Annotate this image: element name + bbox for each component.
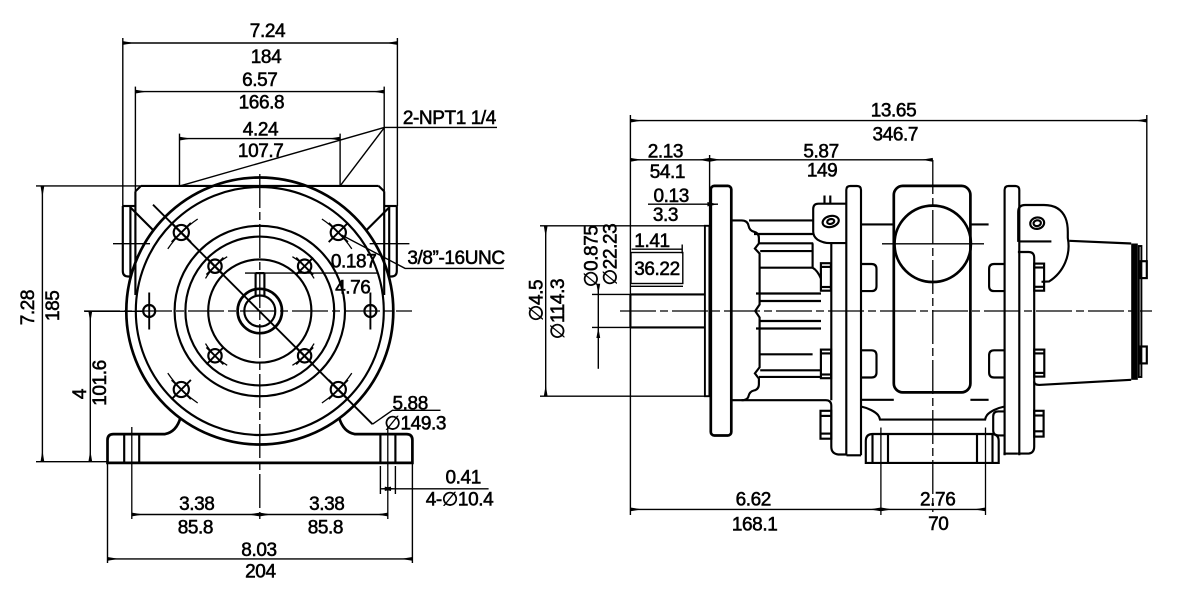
svg-text:∅22.23: ∅22.23 xyxy=(601,224,622,286)
svg-text:346.7: 346.7 xyxy=(873,124,919,145)
svg-text:6.62: 6.62 xyxy=(736,490,771,511)
svg-text:13.65: 13.65 xyxy=(871,100,917,121)
svg-text:184: 184 xyxy=(251,47,282,68)
svg-text:∅4.5: ∅4.5 xyxy=(527,280,548,321)
svg-text:5.88: 5.88 xyxy=(393,393,428,414)
svg-text:36.22: 36.22 xyxy=(634,259,680,280)
svg-text:185: 185 xyxy=(43,291,64,322)
svg-text:168.1: 168.1 xyxy=(732,515,778,536)
svg-text:101.6: 101.6 xyxy=(90,360,111,406)
svg-text:4: 4 xyxy=(70,388,91,399)
svg-text:204: 204 xyxy=(245,562,276,583)
svg-text:1.41: 1.41 xyxy=(634,231,669,252)
svg-text:∅0.875: ∅0.875 xyxy=(582,225,603,287)
svg-text:4.24: 4.24 xyxy=(243,120,279,141)
svg-text:7.24: 7.24 xyxy=(250,21,286,42)
svg-text:3.3: 3.3 xyxy=(653,205,678,226)
svg-text:85.8: 85.8 xyxy=(308,518,343,539)
svg-text:∅114.3: ∅114.3 xyxy=(548,279,569,339)
svg-text:3/8”-16UNC: 3/8”-16UNC xyxy=(407,248,504,269)
svg-text:4-∅10.4: 4-∅10.4 xyxy=(426,490,494,511)
svg-text:85.8: 85.8 xyxy=(178,518,213,539)
svg-text:3.38: 3.38 xyxy=(309,494,344,515)
svg-text:0.187: 0.187 xyxy=(331,252,377,273)
svg-text:2.76: 2.76 xyxy=(920,490,955,511)
svg-text:6.57: 6.57 xyxy=(242,70,277,91)
svg-text:0.41: 0.41 xyxy=(446,468,481,489)
svg-text:0.13: 0.13 xyxy=(654,186,689,207)
svg-text:5.87: 5.87 xyxy=(803,142,838,163)
svg-text:70: 70 xyxy=(928,514,948,535)
svg-text:∅149.3: ∅149.3 xyxy=(384,414,446,435)
svg-text:2.13: 2.13 xyxy=(648,142,683,163)
svg-text:8.03: 8.03 xyxy=(241,540,276,561)
svg-text:7.28: 7.28 xyxy=(18,290,39,325)
svg-text:166.8: 166.8 xyxy=(239,93,285,114)
svg-text:2-NPT1 1/4: 2-NPT1 1/4 xyxy=(403,108,497,129)
svg-text:3.38: 3.38 xyxy=(179,494,214,515)
svg-text:4.76: 4.76 xyxy=(335,277,370,298)
svg-text:149: 149 xyxy=(807,161,838,182)
svg-text:54.1: 54.1 xyxy=(650,162,685,183)
